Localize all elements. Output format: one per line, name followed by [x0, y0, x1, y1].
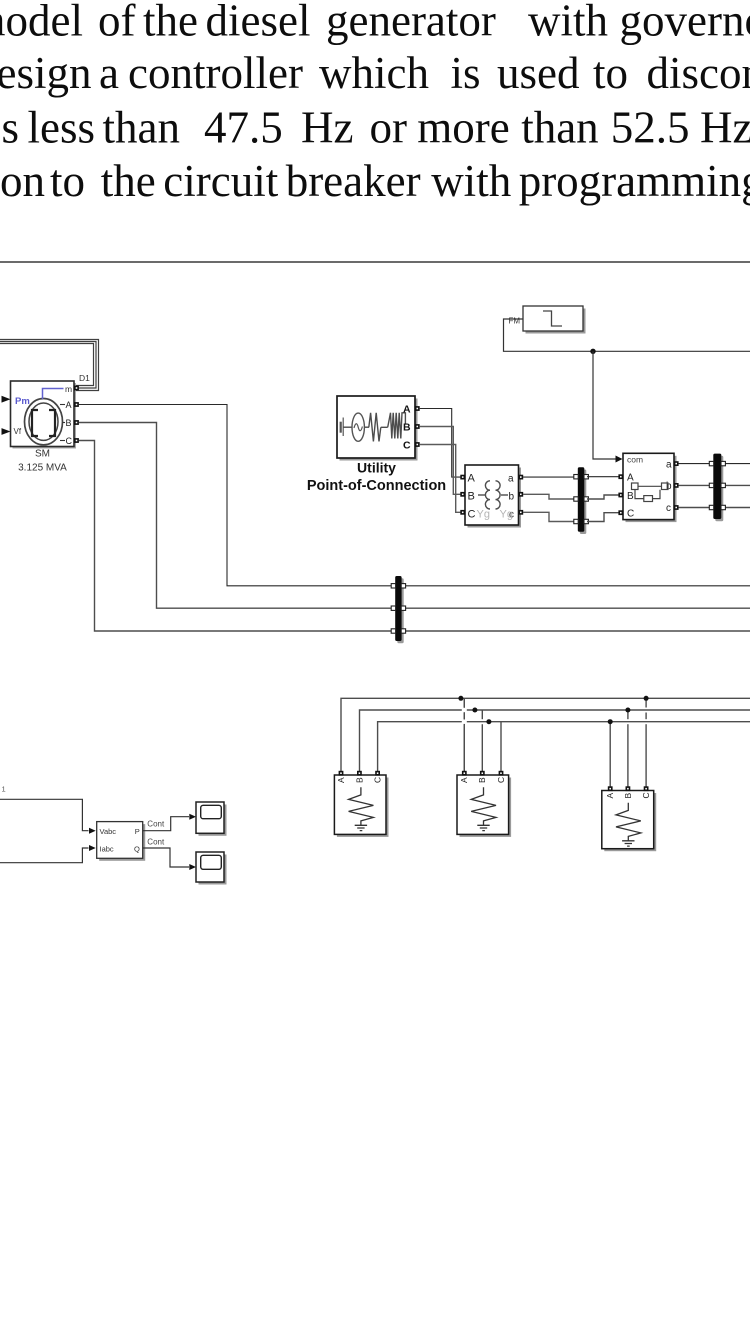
svg-text:com: com: [627, 455, 643, 465]
svg-text:SM: SM: [35, 449, 50, 460]
wire junction down to com: [593, 351, 616, 459]
svg-text:c: c: [666, 503, 671, 514]
SM input arrow Vf: [2, 428, 11, 435]
svg-text:Q: Q: [134, 844, 140, 853]
junction dots feeder to load2: [458, 696, 463, 701]
svg-text:Iabc: Iabc: [100, 844, 114, 853]
bus B4 stubs: [709, 461, 713, 465]
svg-text:C: C: [403, 440, 411, 452]
SM port square B: [74, 420, 79, 425]
SM input arrow Pm: [2, 396, 11, 403]
scope 2: [199, 855, 227, 885]
load feeder line 3: [378, 722, 750, 772]
transformer port squares left: [460, 475, 465, 480]
bus bar B2 shadow: [580, 470, 587, 535]
svg-text:A: A: [459, 777, 469, 783]
wire transformer c to bus B2: [523, 512, 578, 521]
svg-text:B: B: [66, 418, 72, 428]
svg-text:Pm: Pm: [15, 396, 30, 407]
wire step to breaker com: [504, 319, 750, 351]
svg-text:C: C: [373, 777, 383, 783]
step block Fcn shadow: [526, 309, 586, 334]
svg-text:A: A: [627, 473, 634, 484]
scope 1: [199, 805, 227, 836]
arrowhead Vabc: [89, 828, 96, 834]
SM port square C: [74, 438, 79, 443]
load3 branch C: [645, 698, 647, 707]
svg-text:Vf: Vf: [14, 427, 22, 436]
wire Iabc input elbow: [0, 848, 89, 863]
svg-text:FM: FM: [508, 317, 520, 326]
utility port square A: [415, 406, 420, 411]
breaker icon contact line: [638, 485, 662, 487]
breaker icon contact squares: [632, 483, 639, 490]
svg-text:3.125 MVA: 3.125 MVA: [18, 463, 67, 474]
svg-text:B: B: [468, 491, 475, 503]
utility port square B: [415, 424, 420, 429]
svg-text:Cont: Cont: [147, 838, 165, 847]
SM machine icon inner ellipse: [29, 403, 58, 440]
svg-text:a: a: [508, 474, 514, 485]
transformer winding right: [496, 481, 501, 509]
step block: [523, 306, 583, 331]
svg-text:1: 1: [2, 785, 6, 794]
transformer port squares right: [518, 475, 523, 480]
wire bus B2 to breaker B: [587, 495, 620, 499]
SM rotor bracket left: [32, 410, 38, 436]
svg-text:A: A: [468, 473, 476, 485]
svg-text:P: P: [135, 827, 140, 836]
svg-text:C: C: [468, 509, 476, 521]
svg-text:B: B: [623, 793, 633, 799]
load feeder line 1: [341, 698, 750, 772]
svg-text:m: m: [65, 384, 72, 394]
SM port lead B: [63, 422, 66, 424]
junction dots feeder to load3: [608, 719, 613, 724]
wire utility B to transformer B: [420, 427, 461, 495]
transformer block shadow: [468, 468, 522, 528]
arrowhead Iabc: [89, 845, 96, 851]
wire transformer b to bus B2: [523, 494, 578, 499]
bus B3 stubs: [391, 584, 395, 588]
three-phase load 3: [602, 786, 656, 851]
wire breaker b to bus B4: [679, 484, 713, 486]
bus bar B4: [713, 454, 721, 519]
wire breaker c to bus B4: [679, 507, 713, 509]
utility icon terminal bars: [340, 422, 342, 433]
svg-text:design a controller which is u: design a controller which is used to dis…: [0, 48, 750, 98]
svg-text:b: b: [509, 492, 515, 503]
svg-text:Utility: Utility: [357, 460, 396, 476]
svg-text:Yg: Yg: [500, 509, 513, 521]
svg-text:Vabc: Vabc: [100, 827, 117, 836]
SM port lead A: [60, 404, 65, 406]
svg-text:Cont: Cont: [147, 820, 165, 829]
wire P to scope1: [143, 817, 189, 831]
SM port square m: [74, 386, 79, 391]
wire SM C phase: [79, 441, 750, 632]
bus bar B4 shadow: [715, 456, 723, 521]
svg-text:B: B: [354, 777, 364, 783]
subsystem D1 (triple border, cut off at left): [0, 340, 99, 391]
bus bar B2: [578, 467, 585, 532]
bus bar B3 shadow: [397, 578, 403, 643]
wire utility A to transformer A: [420, 409, 461, 478]
svg-text:A: A: [66, 400, 72, 410]
svg-text:B: B: [477, 777, 487, 783]
transformer lead left: [478, 494, 485, 496]
load2 branch A: [463, 698, 465, 772]
junction dot: [590, 349, 595, 354]
breaker port squares right: [674, 461, 679, 466]
utility icon lead3: [381, 426, 388, 428]
SM port lead C: [60, 440, 65, 442]
transformer winding left: [485, 481, 490, 509]
bus bar B3: [395, 576, 401, 641]
svg-text:D1: D1: [79, 373, 90, 383]
wires bus B4 to right edge: [722, 463, 750, 465]
bus B2 stubs: [574, 475, 578, 479]
wire SM A phase: [79, 405, 750, 586]
SM port square A: [74, 402, 79, 407]
svg-text:C: C: [641, 792, 651, 798]
breaker block shadow: [626, 456, 677, 522]
power measurement block PQ: [97, 822, 143, 859]
load3 branch A: [609, 722, 611, 787]
three-phase breaker block: [623, 453, 674, 519]
wire Vabc input elbow: [0, 799, 89, 830]
wire bus B2 to breaker C: [587, 513, 620, 522]
wire breaker a to bus B4: [679, 463, 713, 465]
wire bus B2 to breaker A: [587, 476, 620, 478]
svg-text:A: A: [403, 404, 411, 416]
load3 branch B: [627, 710, 629, 719]
utility icon lead1: [343, 426, 352, 428]
SM m signal blue wire: [43, 389, 64, 400]
utility block shadow: [340, 399, 418, 461]
wire SM B phase: [79, 423, 750, 609]
svg-text:C: C: [66, 436, 73, 446]
wire utility C to transformer C: [420, 445, 461, 513]
svg-text:A: A: [605, 793, 615, 799]
utility icon lead2: [364, 426, 369, 428]
wire Q to scope2: [143, 848, 189, 867]
svg-text:B: B: [627, 491, 634, 502]
svg-text:s less than 47.5 Hz or more th: s less than 47.5 Hz or more than 52.5 Hz: [2, 103, 750, 153]
utility icon AC source ellipse: [352, 413, 364, 441]
utility icon sine: [354, 424, 362, 431]
horizontal rule: [0, 261, 750, 263]
svg-text:a: a: [666, 460, 672, 471]
utility icon zigzag: [369, 413, 381, 442]
breaker icon coil path: [635, 490, 660, 499]
load feeder line 2: [360, 710, 750, 772]
SM rotor bracket right: [49, 410, 55, 436]
three-phase load 1: [334, 771, 388, 837]
breaker icon coil box: [644, 496, 653, 502]
breaker port squares left: [618, 474, 623, 479]
svg-text:A: A: [336, 777, 346, 783]
load2 branch B: [481, 710, 483, 719]
power measurement block shadow: [99, 824, 145, 861]
utility source block: [337, 396, 415, 458]
synchronous machine SM block body: [13, 383, 77, 449]
arrowhead scope1: [189, 814, 196, 820]
svg-text:Point-of-Connection: Point-of-Connection: [307, 478, 446, 494]
three-phase load 2: [457, 771, 511, 837]
step waveform icon: [543, 311, 562, 326]
utility port square C: [415, 442, 420, 447]
transformer block: [465, 465, 519, 525]
load2 branch C: [500, 722, 502, 772]
svg-text:C: C: [627, 509, 634, 520]
wire transformer a to bus B2: [523, 476, 578, 478]
utility icon coil: [388, 413, 406, 439]
svg-text:C: C: [496, 777, 506, 783]
SM machine icon outer ellipse: [25, 399, 63, 445]
arrowhead scope2: [189, 864, 196, 870]
svg-text:Yg: Yg: [477, 509, 490, 521]
svg-text:model of the diesel generator: model of the diesel generator with gover…: [0, 0, 750, 46]
transformer lead right: [501, 494, 508, 496]
svg-text:on to the circuit breaker with: on to the circuit breaker with programmi…: [0, 156, 750, 206]
arrowhead into com: [616, 456, 623, 463]
svg-text:B: B: [403, 422, 411, 434]
